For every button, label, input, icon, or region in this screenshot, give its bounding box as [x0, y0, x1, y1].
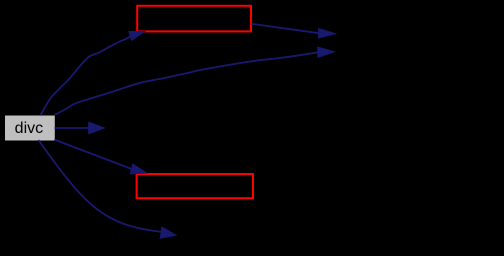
arrowhead: [130, 164, 146, 174]
node box (red, top): [137, 6, 251, 32]
node divc: [6, 116, 55, 140]
arrowhead: [160, 227, 176, 238]
arrowhead: [129, 31, 145, 40]
wire divc long curve to right: [55, 52, 318, 114]
wire divc bottom curve: [39, 140, 162, 232]
node box (red, bottom): [137, 174, 253, 198]
svg-text:divc: divc: [15, 120, 43, 137]
arrowhead: [318, 47, 335, 57]
wire divc short horizontal: [55, 127, 89, 129]
arrowhead: [89, 122, 105, 134]
wire divc to top red box: [40, 36, 130, 115]
wire top red box to right: [252, 24, 319, 33]
arrowhead: [319, 29, 336, 38]
wire divc to bottom red box: [55, 140, 132, 169]
